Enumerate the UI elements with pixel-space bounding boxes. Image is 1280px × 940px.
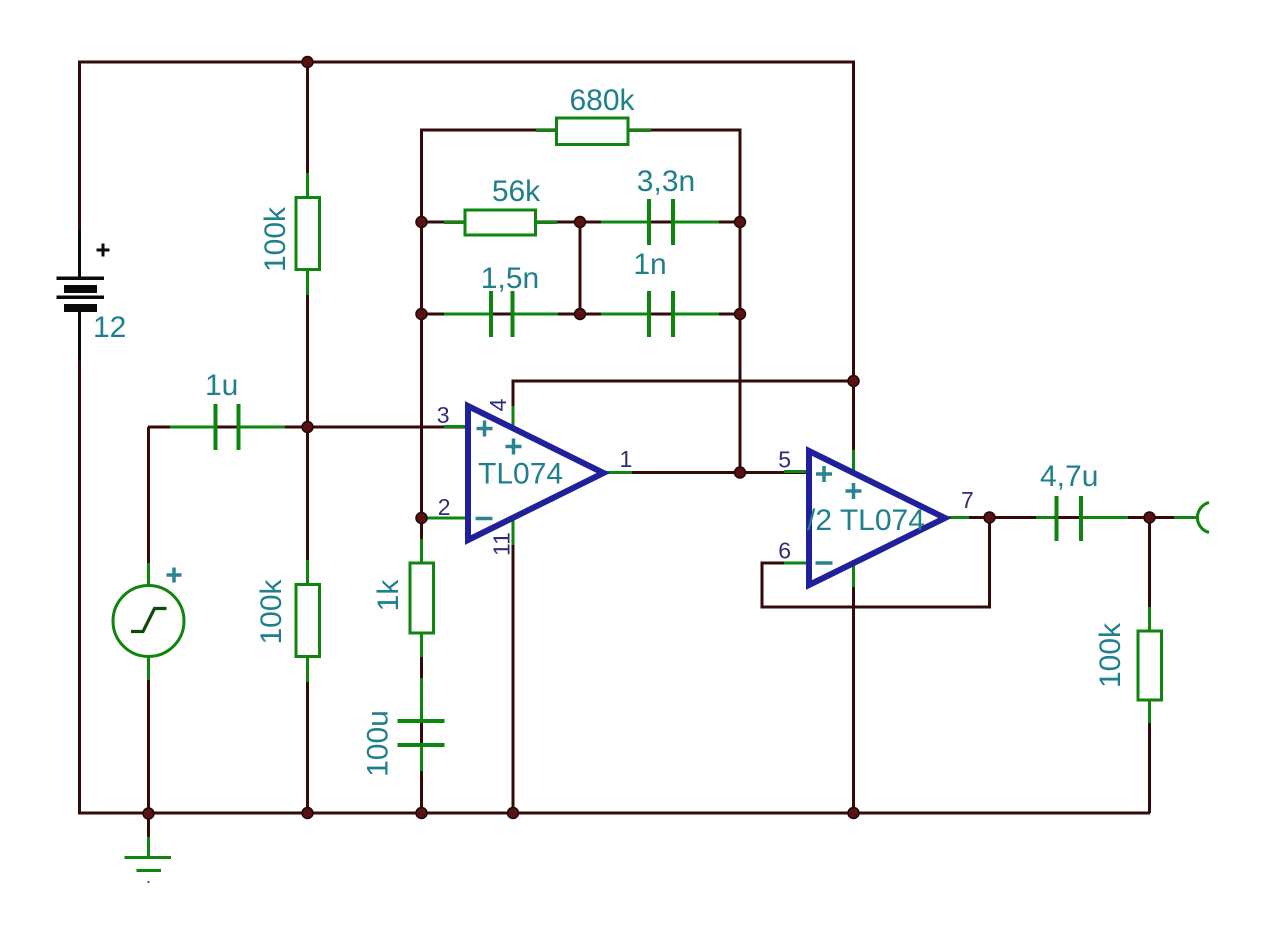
node gnd rail bbox=[848, 808, 859, 819]
capacitor 1n bbox=[601, 291, 719, 337]
svg-text:100u: 100u bbox=[362, 710, 395, 777]
capacitor 3,3n bbox=[601, 199, 719, 245]
node 56k right bbox=[575, 217, 586, 228]
node junction dots bbox=[143, 57, 1155, 820]
node 1,5n left bbox=[416, 309, 427, 320]
node gnd 100k bbox=[302, 808, 313, 819]
resistor 1k bbox=[410, 539, 434, 657]
capacitor 1,5n bbox=[444, 291, 558, 337]
svg-text:11: 11 bbox=[489, 532, 515, 556]
wire output column bbox=[1148, 518, 1151, 814]
svg-text:7: 7 bbox=[961, 487, 974, 513]
svg-text:680k: 680k bbox=[569, 84, 635, 117]
resistor 680k bbox=[536, 118, 651, 145]
wire left rail lower bbox=[78, 312, 81, 815]
ground bbox=[125, 813, 172, 883]
svg-text:5: 5 bbox=[778, 447, 791, 473]
battery B1 bbox=[57, 230, 110, 360]
svg-text:TL074: TL074 bbox=[478, 458, 563, 491]
wire top rail bbox=[79, 61, 853, 64]
source V1 bbox=[113, 563, 184, 680]
node feedback out bbox=[735, 467, 746, 478]
node gnd 100u bbox=[416, 808, 427, 819]
svg-text:3: 3 bbox=[437, 402, 450, 428]
wire source column bbox=[147, 427, 150, 587]
wire 100k column top bbox=[306, 62, 309, 427]
svg-text:/2 TL074: /2 TL074 bbox=[807, 504, 925, 537]
svg-text:4,7u: 4,7u bbox=[1040, 460, 1098, 493]
node input bbox=[302, 422, 313, 433]
capacitor 1u bbox=[170, 404, 285, 450]
wire 1,5n row bbox=[422, 313, 581, 316]
wire 100k column bottom bbox=[306, 427, 309, 813]
svg-text:1k: 1k bbox=[372, 579, 405, 612]
connector output bbox=[1174, 503, 1209, 533]
svg-text:3,3n: 3,3n bbox=[637, 165, 695, 198]
wire U2 output bbox=[946, 516, 1197, 519]
node gnd source bbox=[143, 808, 154, 819]
node power rail bbox=[848, 376, 859, 387]
svg-text:6: 6 bbox=[778, 538, 791, 564]
node pin2 bbox=[416, 513, 427, 524]
node U2 out bbox=[984, 512, 995, 523]
svg-text:1,5n: 1,5n bbox=[481, 262, 539, 295]
wire bottom rail bbox=[78, 812, 1150, 815]
wire 3,3n row bbox=[580, 221, 740, 224]
node 3,3n right bbox=[735, 217, 746, 228]
capacitor 100u bbox=[398, 678, 445, 771]
svg-text:100k: 100k bbox=[259, 206, 292, 272]
label source plus bbox=[167, 568, 182, 583]
resistor 100k (top left) bbox=[296, 173, 320, 295]
wire feedback right rail bbox=[739, 129, 742, 473]
capacitor 4,7u bbox=[1036, 496, 1128, 541]
node 1,5n right bbox=[575, 309, 586, 320]
op-amp U2 bbox=[784, 450, 969, 587]
resistor 100k (lower left) bbox=[296, 560, 320, 682]
wire feedback left rail bbox=[420, 129, 423, 814]
wire 1n row bbox=[580, 313, 740, 316]
op-amp U1 bbox=[427, 406, 632, 545]
wire feedback mid rail bbox=[579, 222, 582, 314]
wire source to ground bbox=[147, 655, 150, 813]
svg-text:100k: 100k bbox=[1094, 622, 1127, 688]
wire 56k row bbox=[422, 221, 581, 224]
wire 853 rail lower bbox=[852, 563, 855, 813]
svg-text:56k: 56k bbox=[492, 175, 541, 208]
node 1n right bbox=[735, 309, 746, 320]
resistor 56k bbox=[444, 210, 557, 235]
node 56k left bbox=[416, 217, 427, 228]
node gnd pin11 bbox=[508, 808, 519, 819]
wire pin4 power bbox=[513, 381, 853, 429]
svg-text:4: 4 bbox=[485, 398, 511, 411]
wire U2 feedback bbox=[762, 518, 990, 608]
wire left rail upper bbox=[78, 61, 81, 278]
resistor 100k (output) bbox=[1138, 607, 1162, 723]
wire input row bbox=[148, 426, 466, 429]
svg-text:1: 1 bbox=[620, 446, 633, 472]
node top-100k bbox=[302, 57, 313, 68]
svg-text:2: 2 bbox=[438, 494, 451, 520]
svg-text:1u: 1u bbox=[205, 369, 238, 402]
svg-text:12: 12 bbox=[93, 311, 126, 344]
wire U1 output bbox=[604, 471, 807, 474]
wire 680k row bbox=[422, 129, 741, 132]
svg-text:100k: 100k bbox=[255, 578, 288, 644]
wire pin11 column bbox=[512, 517, 515, 813]
node output RC bbox=[1144, 512, 1155, 523]
svg-text:1n: 1n bbox=[633, 248, 666, 281]
wire 853 rail upper bbox=[852, 61, 855, 471]
